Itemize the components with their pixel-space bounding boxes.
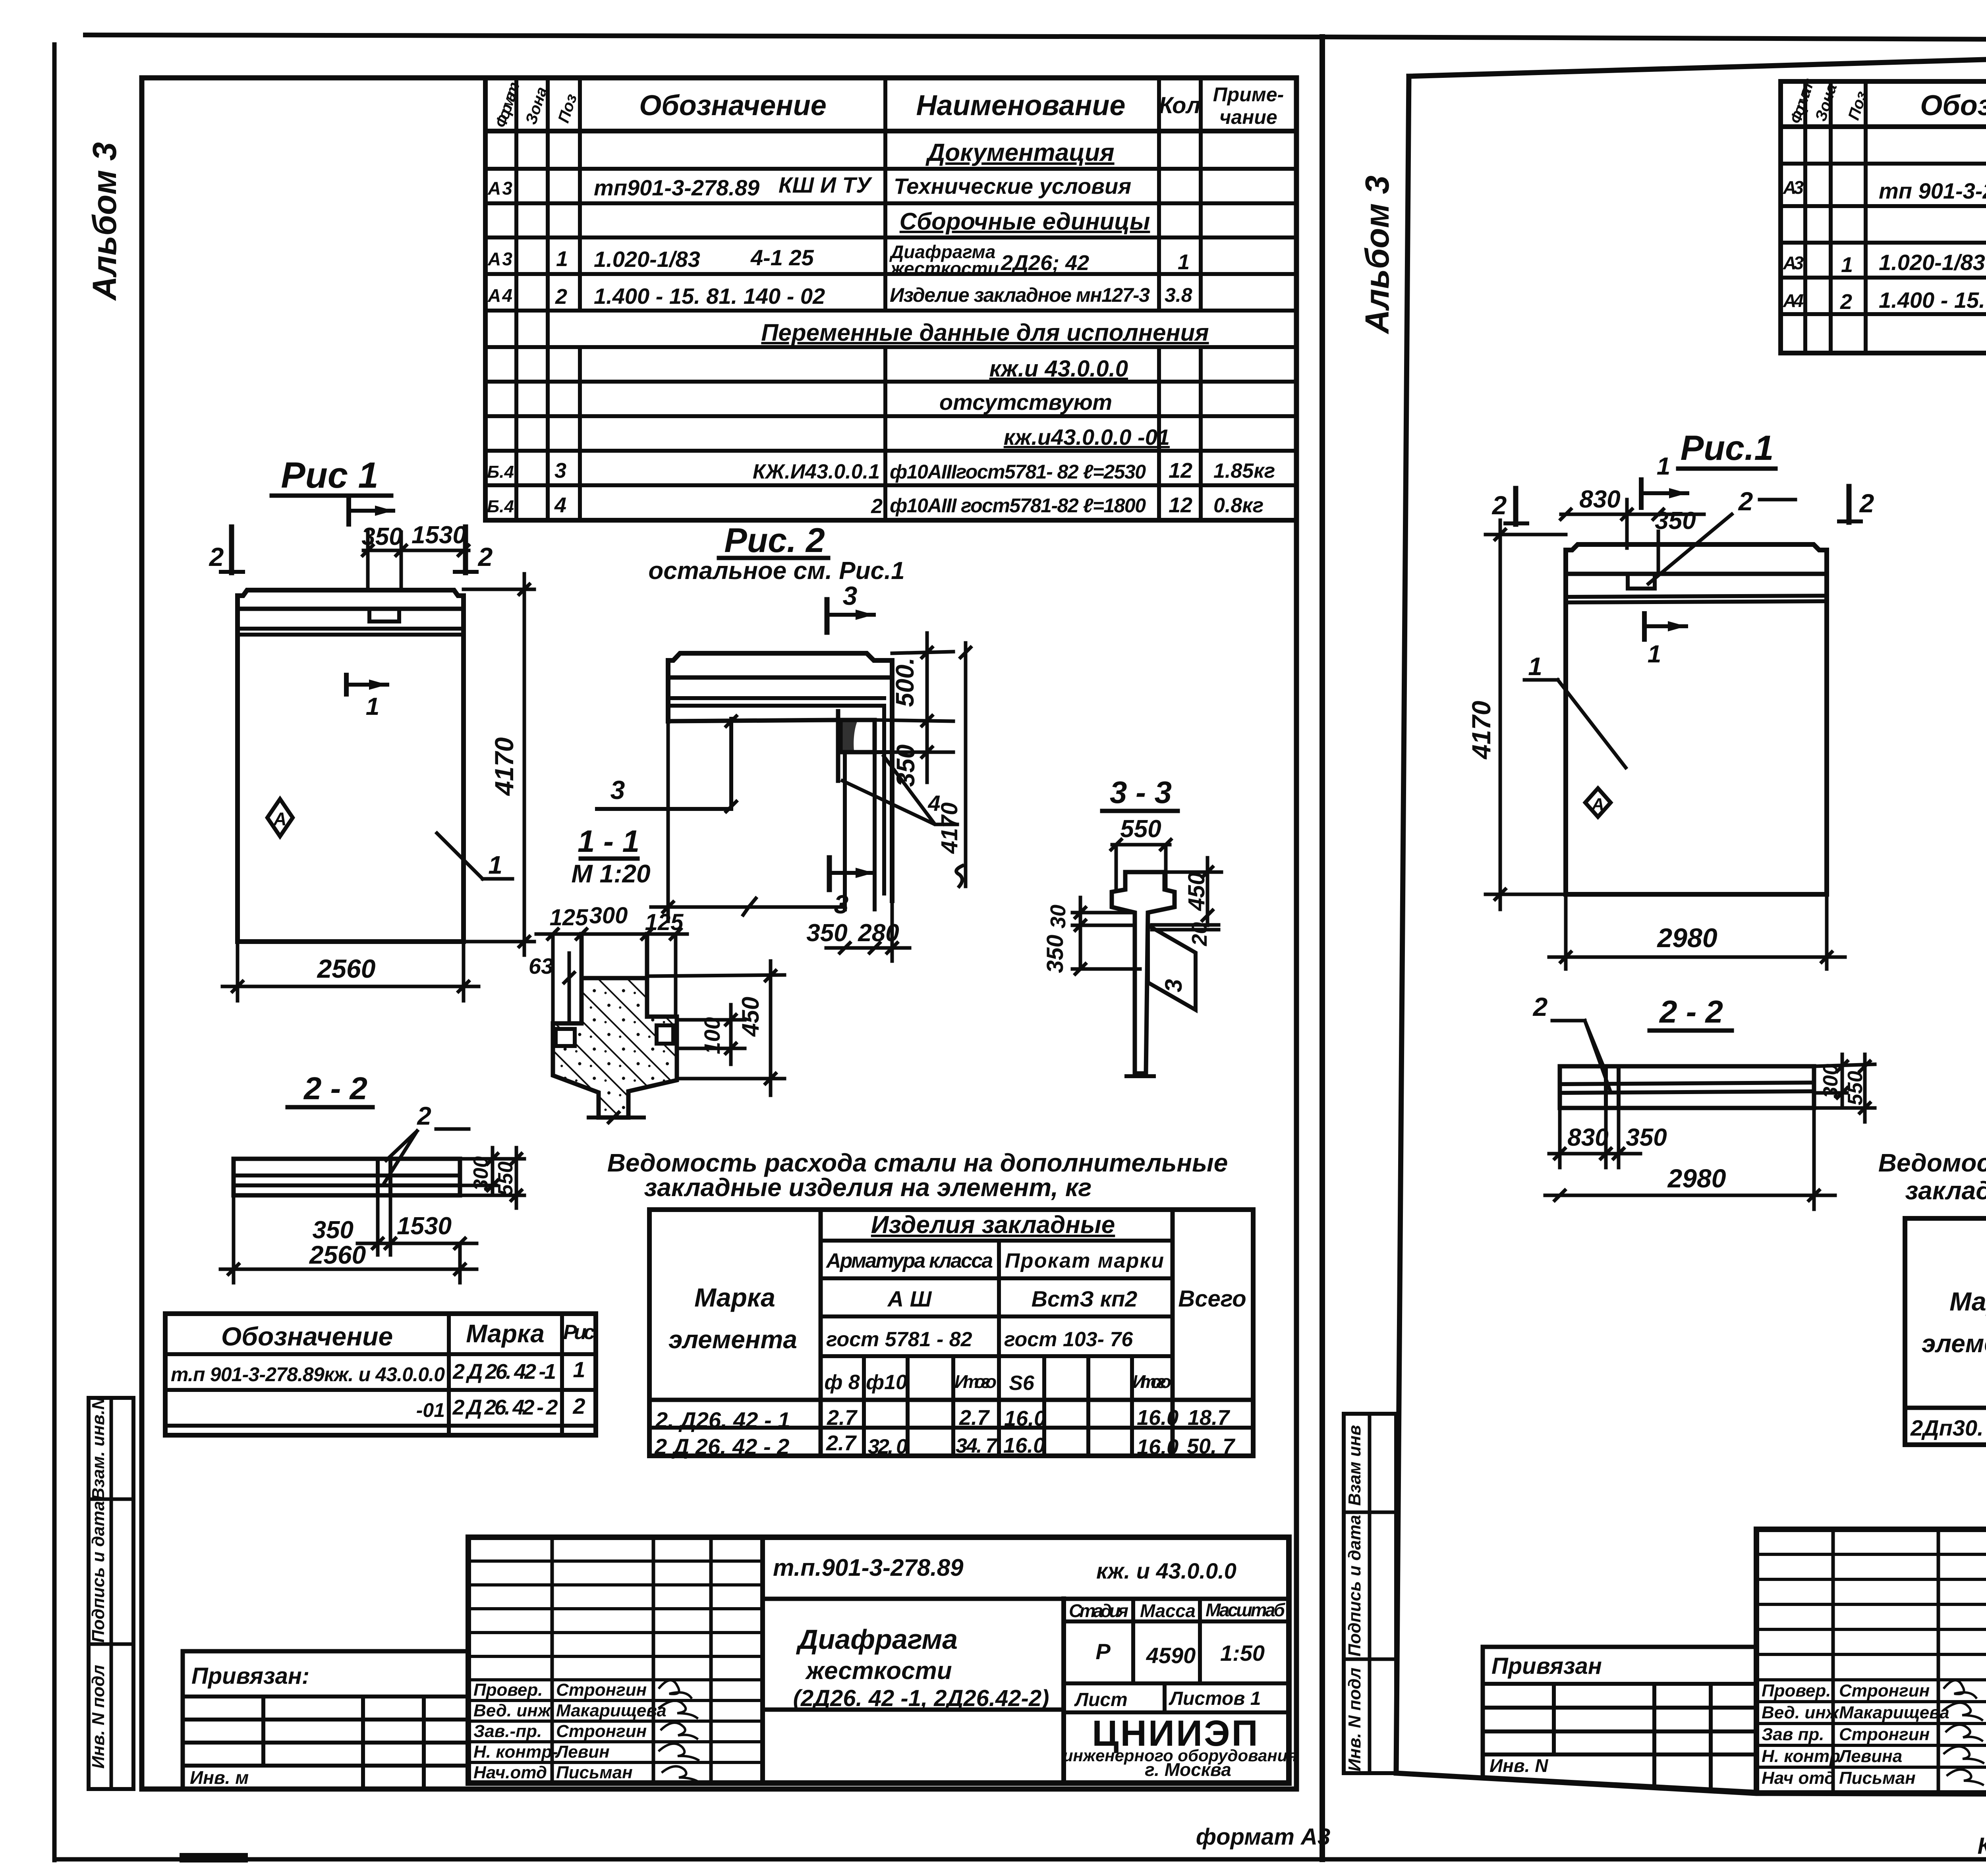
svg-text:Провер.: Провер. <box>473 1680 543 1700</box>
svg-text:Приме-: Приме- <box>1213 83 1284 106</box>
svg-text:закладные изделия на элемент: закладные изделия на элемент, кг <box>644 1173 1092 1202</box>
panel double lines <box>1566 596 1827 597</box>
svg-text:3: 3 <box>1160 979 1187 992</box>
signatures scribbles <box>1944 1680 1983 1785</box>
svg-text:12: 12 <box>1169 493 1192 517</box>
svg-text:3: 3 <box>834 890 849 919</box>
svg-text:2: 2 <box>1840 290 1852 314</box>
dim 450 far right <box>651 975 784 976</box>
svg-text:Стронгин: Стронгин <box>556 1722 647 1741</box>
signature rows <box>1762 1681 1949 1788</box>
svg-text:Всего: Всего <box>1178 1286 1246 1312</box>
spec table (right) grid <box>1781 81 1986 353</box>
svg-text:Привязан:: Привязан: <box>191 1663 309 1689</box>
svg-text:1: 1 <box>1528 652 1542 681</box>
panel double lines <box>238 627 464 631</box>
spec table (right) texts <box>1783 76 1986 315</box>
grid <box>649 1210 1253 1456</box>
dim 500 right <box>925 633 929 731</box>
corbel notch left <box>556 1029 575 1046</box>
page bottom edge <box>54 1857 1986 1862</box>
svg-text:1: 1 <box>488 851 502 879</box>
svg-text:2Д26; 42: 2Д26; 42 <box>1001 251 1089 275</box>
svg-text:кж. и 43.0.0.0: кж. и 43.0.0.0 <box>1096 1558 1236 1583</box>
svg-text:1: 1 <box>1178 250 1190 274</box>
svg-text:Переменные данные для испол: Переменные данные для исполнения <box>761 319 1209 346</box>
svg-text:Прокат марки: Прокат марки <box>1005 1249 1164 1272</box>
svg-text:г. Москва: г. Москва <box>1145 1759 1231 1780</box>
svg-text:жесткости: жесткости <box>805 1657 952 1685</box>
svg-text:Сборочные единицы: Сборочные единицы <box>900 208 1150 235</box>
wall above section <box>580 934 584 979</box>
svg-text:-01: -01 <box>416 1399 445 1421</box>
svg-text:2: 2 <box>572 1393 585 1419</box>
svg-text:1: 1 <box>573 1357 585 1382</box>
svg-text:Документация: Документация <box>925 139 1114 166</box>
svg-text:Письман: Письман <box>1839 1768 1916 1788</box>
corbel notch right <box>657 1025 673 1044</box>
ledge line <box>668 676 892 680</box>
svg-text:350: 350 <box>313 1216 354 1244</box>
signature rows <box>473 1680 667 1782</box>
svg-text:50. 7: 50. 7 <box>1187 1434 1236 1458</box>
svg-text:Изделия закладные: Изделия закладные <box>871 1211 1115 1239</box>
dim 20 right <box>1152 923 1219 927</box>
panel outline <box>238 590 464 942</box>
section mark 1 inside <box>1642 614 1647 639</box>
flag 3 <box>1148 925 1196 1010</box>
svg-text:Наименование: Наименование <box>916 90 1126 122</box>
svg-text:Н. контр: Н. контр <box>1762 1747 1840 1766</box>
svg-text:Левина: Левина <box>1838 1747 1902 1766</box>
section mark 3 bottom <box>827 858 832 890</box>
svg-text:2: 2 <box>417 1102 431 1130</box>
svg-text:1 - 1: 1 - 1 <box>578 824 639 859</box>
svg-text:Стронгин: Стронгин <box>1839 1725 1930 1744</box>
svg-text:300: 300 <box>1819 1064 1842 1098</box>
inter-sheet divider edge <box>1319 37 1325 1859</box>
svg-text:2: 2 <box>1532 992 1548 1021</box>
svg-text:ф10АIIIгост5781- 82 ℓ=2530: ф10АIIIгост5781- 82 ℓ=2530 <box>890 461 1146 483</box>
svg-text:1: 1 <box>1648 641 1661 668</box>
dim 450 right <box>1166 870 1221 874</box>
svg-text:Технические условия: Технические условия <box>894 174 1131 199</box>
svg-text:Провер.: Провер. <box>1762 1681 1831 1700</box>
svg-text:Обозначение: Обозначение <box>639 90 827 122</box>
svg-text:2Дп30. 42 - 1: 2Дп30. 42 - 1 <box>1910 1415 1986 1440</box>
svg-text:Рис: Рис <box>563 1321 595 1344</box>
svg-text:ВстЗ кп2: ВстЗ кп2 <box>1032 1286 1138 1311</box>
svg-text:Марка: Марка <box>694 1283 775 1312</box>
panel ledge line <box>238 607 464 611</box>
svg-text:Ведомость расхода стали на: Ведомость расхода стали на дополнительны… <box>1878 1148 1986 1177</box>
svg-text:2 Д 26. 42 -1: 2 Д 26. 42 -1 <box>452 1360 556 1384</box>
bar inner lines <box>1560 1083 1814 1084</box>
svg-text:Зав пр.: Зав пр. <box>1762 1725 1824 1744</box>
svg-text:Зона: Зона <box>1812 81 1841 123</box>
svg-text:2 Д 26. 42 - 2: 2 Д 26. 42 - 2 <box>452 1395 558 1419</box>
svg-text:элемента: элемента <box>668 1325 797 1354</box>
embedded plate marks <box>376 1159 380 1195</box>
line below opening <box>838 750 892 754</box>
svg-text:Марка: Марка <box>1949 1287 1986 1316</box>
svg-text:16.0: 16.0 <box>1003 1434 1045 1457</box>
svg-text:34. 7: 34. 7 <box>956 1434 998 1457</box>
svg-text:тп 901-3-278.89: тп 901-3-278.89 <box>1879 178 1986 203</box>
dim line top of section <box>536 932 687 936</box>
svg-text:4-1 25: 4-1 25 <box>750 245 814 270</box>
svg-text:2 - 2: 2 - 2 <box>303 1071 367 1106</box>
svg-text:300: 300 <box>469 1156 493 1191</box>
svg-text:2: 2 <box>209 542 224 571</box>
svg-text:Привязан: Привязан <box>1491 1653 1602 1679</box>
svg-text:2: 2 <box>871 495 883 518</box>
svg-text:4170: 4170 <box>1466 701 1496 760</box>
section 3 cut left part <box>597 719 731 809</box>
svg-text:А: А <box>1591 795 1604 814</box>
svg-text:Зав.-пр.: Зав.-пр. <box>473 1722 542 1741</box>
svg-text:Рис 1: Рис 1 <box>281 455 378 496</box>
svg-text:1: 1 <box>1657 453 1670 480</box>
hatched concrete section <box>553 978 677 1117</box>
svg-text:(2Д26. 42 -1, 2Д26.42-2): (2Д26. 42 -1, 2Д26.42-2) <box>793 1685 1049 1711</box>
grid <box>1905 1218 1986 1445</box>
svg-text:12: 12 <box>1169 459 1192 483</box>
svg-text:2 Д 26. 42 - 2: 2 Д 26. 42 - 2 <box>654 1434 789 1459</box>
bar outline <box>1560 1066 1814 1108</box>
svg-text:32. 0: 32. 0 <box>868 1435 908 1458</box>
page left edge <box>52 44 57 1860</box>
section mark 1 top <box>346 497 351 524</box>
svg-text:550: 550 <box>1844 1071 1867 1106</box>
svg-text:3: 3 <box>554 459 566 483</box>
svg-text:Стадия: Стадия <box>1069 1600 1128 1621</box>
dim 4170 left <box>1486 533 1566 537</box>
svg-text:500.: 500. <box>891 658 919 707</box>
svg-text:Взам. инв.N: Взам. инв.N <box>89 1397 108 1500</box>
svg-text:т.п.901-3-278.89: т.п.901-3-278.89 <box>773 1554 964 1581</box>
svg-text:Альбом 3: Альбом 3 <box>1358 176 1396 334</box>
svg-text:кж.и43.0.0.0 -01: кж.и43.0.0.0 -01 <box>1004 425 1170 450</box>
svg-text:кж.и 43.0.0.0: кж.и 43.0.0.0 <box>989 356 1128 382</box>
svg-text:Инв. N подл: Инв. N подл <box>1345 1668 1364 1772</box>
diamond mark A <box>1585 788 1611 817</box>
svg-text:350: 350 <box>1042 935 1068 973</box>
dim line top <box>1561 513 1704 516</box>
svg-text:2560: 2560 <box>317 954 376 983</box>
svg-text:1.400 - 15. 81 140 - 82: 1.400 - 15. 81 140 - 82 <box>1879 288 1986 313</box>
svg-text:16.0: 16.0 <box>1137 1406 1178 1430</box>
svg-text:550: 550 <box>494 1162 517 1196</box>
svg-text:ф10АIII гост5781-82 ℓ=1800: ф10АIII гост5781-82 ℓ=1800 <box>890 494 1146 517</box>
panel notch <box>369 609 399 621</box>
svg-text:63: 63 <box>529 953 553 979</box>
svg-text:Обозначение: Обозначение <box>1920 90 1986 122</box>
dim 100 right <box>677 1018 745 1022</box>
svg-text:А3: А3 <box>487 249 512 269</box>
svg-text:1: 1 <box>366 693 379 720</box>
svg-text:450: 450 <box>737 997 764 1037</box>
signatures scribbles <box>659 1680 698 1781</box>
svg-text:100: 100 <box>699 1017 724 1054</box>
svg-text:остальное см. Рис.1: остальное см. Рис.1 <box>648 557 904 585</box>
svg-text:2.7: 2.7 <box>826 1431 857 1455</box>
svg-text:350: 350 <box>891 745 920 787</box>
svg-text:4170: 4170 <box>937 802 962 854</box>
stem bottom end line <box>589 1116 644 1119</box>
svg-text:Обозначение: Обозначение <box>221 1322 393 1351</box>
svg-text:Масштаб: Масштаб <box>1206 1600 1286 1620</box>
svg-text:Письман: Письман <box>556 1763 633 1782</box>
panel notch <box>1628 574 1655 589</box>
svg-text:350: 350 <box>806 919 847 947</box>
left margin stamp strip <box>89 1397 133 1789</box>
bar inner lines <box>234 1173 460 1177</box>
svg-text:А4: А4 <box>1783 290 1804 311</box>
svg-text:2: 2 <box>477 542 493 571</box>
svg-text:А3: А3 <box>487 178 512 199</box>
svg-text:1.400 - 15. 81. 140 - 02: 1.400 - 15. 81. 140 - 02 <box>594 284 825 309</box>
svg-text:Лист: Лист <box>1074 1689 1128 1710</box>
svg-text:Р: Р <box>1095 1639 1111 1664</box>
svg-text:3 - 3: 3 - 3 <box>1110 775 1172 810</box>
svg-text:1: 1 <box>556 247 568 271</box>
svg-text:Вед. инж.: Вед. инж. <box>473 1701 556 1720</box>
svg-text:350: 350 <box>1626 1124 1667 1151</box>
svg-text:30: 30 <box>1046 905 1070 928</box>
middle dividers <box>1061 1599 1066 1783</box>
svg-text:1530: 1530 <box>397 1212 452 1240</box>
section 3 cut verticals near opening <box>836 711 840 781</box>
leader 1 <box>437 833 483 879</box>
svg-text:2.7: 2.7 <box>959 1406 990 1430</box>
section mark 1 inside <box>344 675 349 694</box>
svg-text:Итого: Итого <box>954 1371 997 1392</box>
svg-text:2. Д26. 42 - 1: 2. Д26. 42 - 1 <box>655 1407 790 1432</box>
svg-text:2: 2 <box>555 285 567 309</box>
svg-text:2980: 2980 <box>1656 923 1717 953</box>
svg-text:Подпись и дата: Подпись и дата <box>89 1501 108 1643</box>
dim 2980 bottom <box>1564 894 1568 969</box>
lower edge of strip <box>668 720 838 721</box>
svg-text:А3: А3 <box>1783 177 1804 198</box>
dim 350 left <box>1072 967 1140 971</box>
svg-text:Итого: Итого <box>1132 1371 1171 1392</box>
panel outline <box>1566 544 1827 894</box>
svg-text:Изделие закладное мн127-3: Изделие закладное мн127-3 <box>890 284 1150 306</box>
dim 2560 bottom <box>236 942 240 1001</box>
panel ledge line <box>1566 572 1827 576</box>
svg-text:830: 830 <box>1567 1124 1608 1151</box>
svg-text:Инв. N подл: Инв. N подл <box>89 1665 108 1769</box>
svg-text:Левин: Левин <box>555 1742 610 1762</box>
leader 4 <box>842 755 957 824</box>
svg-text:Нач.отд: Нач.отд <box>473 1763 547 1782</box>
dim line top <box>363 549 469 552</box>
svg-text:2980: 2980 <box>1667 1164 1726 1193</box>
svg-text:Диафрагма: Диафрагма <box>796 1624 958 1655</box>
svg-text:Альбом 3: Альбом 3 <box>86 142 123 301</box>
svg-text:Формат: Формат <box>492 80 523 130</box>
svg-text:ф10: ф10 <box>866 1371 907 1394</box>
svg-text:2: 2 <box>1491 490 1507 520</box>
svg-text:1: 1 <box>1841 253 1853 277</box>
svg-text:закладные изделия на элем: закладные изделия на элемент, кг <box>1905 1176 1986 1205</box>
svg-text:3: 3 <box>610 775 625 805</box>
svg-text:3.8: 3.8 <box>1165 284 1192 306</box>
bottom dim line with break <box>651 905 842 909</box>
svg-text:2560: 2560 <box>309 1241 366 1269</box>
section mark 1 top <box>1639 480 1644 508</box>
page top edge <box>85 35 1986 41</box>
svg-text:Подпись и дата: Подпись и дата <box>1345 1515 1364 1657</box>
svg-text:КЖ.И43.0.0.1: КЖ.И43.0.0.1 <box>753 460 880 483</box>
svg-text:М 1:20: М 1:20 <box>571 859 650 888</box>
inner right line <box>882 706 886 894</box>
svg-text:формат А3: формат А3 <box>1196 1824 1330 1850</box>
svg-text:Инв. N: Инв. N <box>1489 1755 1548 1776</box>
double lines <box>668 696 884 700</box>
stadia zone <box>1131 1599 1135 1683</box>
svg-text:Взам инв: Взам инв <box>1345 1425 1364 1506</box>
svg-text:т.п 901-3-278.89кж. и 43.0.0.0: т.п 901-3-278.89кж. и 43.0.0.0 <box>171 1363 445 1386</box>
svg-text:элемента: элемента <box>1922 1329 1986 1358</box>
left signature zone <box>1831 1529 1835 1793</box>
svg-text:1530: 1530 <box>411 521 466 549</box>
svg-text:20: 20 <box>1188 922 1211 946</box>
svg-text:2 - 2: 2 - 2 <box>1659 994 1723 1029</box>
svg-text:ф 8: ф 8 <box>824 1371 860 1394</box>
dim 350 right <box>925 731 929 782</box>
svg-text:1.020-1/83: 1.020-1/83 <box>594 247 700 272</box>
svg-text:1:50: 1:50 <box>1220 1641 1265 1666</box>
right rotated dims 300 550 <box>1814 1064 1875 1066</box>
svg-text:Масса: Масса <box>1140 1600 1196 1621</box>
svg-text:Кол: Кол <box>1159 93 1201 118</box>
spec table (left) grid <box>485 78 1296 520</box>
partial panel outline <box>668 653 892 901</box>
svg-text:2: 2 <box>1859 488 1874 518</box>
opening with concrete <box>840 720 875 752</box>
svg-text:А3: А3 <box>1783 253 1804 273</box>
svg-text:0.8кг: 0.8кг <box>1213 494 1263 517</box>
svg-text:Листов 1: Листов 1 <box>1169 1688 1261 1709</box>
dim 4170 right <box>464 588 534 591</box>
svg-text:2.7: 2.7 <box>827 1406 858 1430</box>
svg-text:16.0: 16.0 <box>1137 1435 1178 1459</box>
svg-text:А: А <box>273 809 286 829</box>
svg-text:Стронгин: Стронгин <box>556 1680 647 1700</box>
svg-text:450: 450 <box>1184 872 1209 911</box>
embedded plate marks <box>1604 1066 1608 1108</box>
svg-text:Инв. м: Инв. м <box>190 1767 249 1788</box>
svg-text:Стронгин: Стронгин <box>1839 1681 1930 1700</box>
svg-text:550: 550 <box>1120 815 1161 843</box>
svg-text:1.020-1/83: 1.020-1/83 <box>1879 250 1985 275</box>
svg-text:чание: чание <box>1219 106 1277 128</box>
svg-text:18.7: 18.7 <box>1188 1406 1231 1430</box>
svg-text:4: 4 <box>554 493 566 517</box>
svg-text:2: 2 <box>1738 486 1753 516</box>
svg-text:1.85кг: 1.85кг <box>1213 459 1275 483</box>
dim 30 left <box>1072 911 1135 915</box>
svg-text:жесткости: жесткости <box>889 258 999 279</box>
svg-text:Арматура класса: Арматура класса <box>825 1249 993 1272</box>
svg-text:4590: 4590 <box>1146 1643 1196 1668</box>
svg-text:Б.4: Б.4 <box>487 462 514 482</box>
svg-text:125: 125 <box>550 905 589 930</box>
svg-text:3: 3 <box>843 581 858 610</box>
svg-text:А4: А4 <box>487 285 512 306</box>
svg-text:Нач отд: Нач отд <box>1762 1768 1835 1788</box>
svg-text:Макарищева: Макарищева <box>1839 1703 1949 1722</box>
svg-text:Б.4: Б.4 <box>487 497 514 516</box>
svg-text:Марка: Марка <box>466 1319 545 1348</box>
svg-text:830: 830 <box>1579 486 1620 513</box>
dim 4170 far right <box>964 643 968 886</box>
svg-text:Н. контр-: Н. контр- <box>473 1742 558 1762</box>
svg-text:А Ш: А Ш <box>887 1286 932 1311</box>
svg-text:300: 300 <box>589 903 628 928</box>
svg-text:Рис. 2: Рис. 2 <box>724 521 825 560</box>
svg-text:Копировал Подлевская: Копировал Подлевская <box>1978 1833 1986 1859</box>
svg-text:Макарищева: Макарищева <box>556 1701 667 1720</box>
svg-text:тп901-3-278.89: тп901-3-278.89 <box>594 175 759 200</box>
right rotated dims 300 550 <box>460 1157 524 1161</box>
svg-text:гост 103- 76: гост 103- 76 <box>1004 1328 1133 1351</box>
svg-text:КШ И ТУ: КШ И ТУ <box>779 172 873 197</box>
diamond mark A <box>267 799 293 836</box>
bar outline <box>234 1159 460 1195</box>
left signature zone <box>551 1537 554 1783</box>
right margin stamp strip <box>1344 1414 1396 1773</box>
T profile <box>1112 872 1175 1073</box>
svg-text:гост 5781 - 82: гост 5781 - 82 <box>826 1328 972 1351</box>
svg-text:4170: 4170 <box>489 737 519 796</box>
svg-text:Рис.1: Рис.1 <box>1681 428 1774 467</box>
svg-text:Поз: Поз <box>555 92 581 125</box>
svg-text:Вед. инж: Вед. инж <box>1762 1703 1840 1722</box>
svg-text:S6: S6 <box>1009 1372 1035 1395</box>
drawing frame left sheet <box>142 78 1296 1789</box>
spec table (left) header texts <box>487 80 1284 518</box>
svg-text:отсутствуют: отсутствуют <box>939 390 1112 415</box>
drawing frame right sheet <box>1396 42 1986 1795</box>
svg-text:16.0: 16.0 <box>1004 1407 1046 1430</box>
